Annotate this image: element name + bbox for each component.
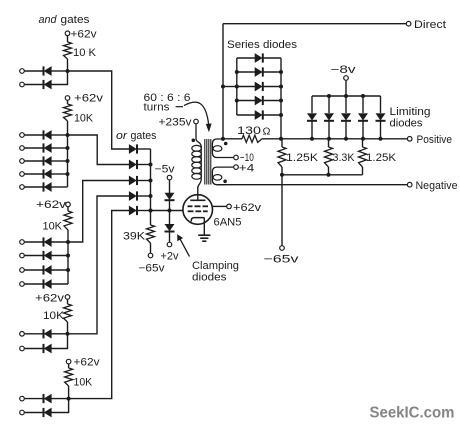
input terminal G4b bbox=[20, 346, 25, 351]
wire G3 bus bbox=[67, 242, 69, 284]
wire G1 D1 out bbox=[52, 70, 68, 72]
svg-text:−8v: −8v bbox=[331, 64, 357, 76]
wire positive bus bbox=[281, 138, 407, 140]
wire series right rail bbox=[280, 58, 282, 139]
wire limiting D5 bottom bbox=[380, 121, 382, 139]
terminal Direct bbox=[406, 21, 411, 26]
input terminal G4a bbox=[20, 332, 25, 337]
resistor R8 1.25K bbox=[278, 139, 319, 175]
wire G5 to or-row5 bbox=[69, 211, 130, 399]
wire negative line bbox=[217, 184, 407, 186]
wire Direct horizontal bbox=[223, 23, 406, 25]
wire series rung 3 out bbox=[263, 86, 281, 88]
wire OR D1 out bbox=[137, 148, 151, 150]
resistor R3 10K G3 bbox=[43, 207, 73, 242]
node limiting bottom junction bbox=[379, 137, 383, 141]
wire G1b bbox=[25, 84, 43, 86]
input terminal G1a bbox=[20, 69, 25, 74]
svg-text:+62v: +62v bbox=[233, 202, 262, 214]
wire series rung 1 out bbox=[263, 57, 281, 59]
wire G5 D1 out bbox=[52, 398, 69, 400]
svg-text:10K: 10K bbox=[43, 221, 63, 233]
node G3 junction bbox=[66, 268, 70, 272]
diode OR D4 bbox=[129, 191, 137, 200]
wire G2 to or-row2 bbox=[68, 135, 130, 165]
input terminal G2b bbox=[20, 146, 25, 151]
node G2 junction bbox=[66, 133, 70, 137]
node limiting top junction bbox=[327, 94, 331, 98]
terminal +235v bbox=[194, 119, 199, 124]
wire G5 D2 out bbox=[52, 399, 69, 413]
svg-text:10K: 10K bbox=[74, 377, 93, 389]
wire G3c bbox=[25, 269, 43, 271]
wire limiting D3 bottom bbox=[345, 121, 347, 139]
node R9 bottom bbox=[327, 173, 331, 177]
svg-text:diodes: diodes bbox=[192, 272, 227, 284]
resistor R1 10K G1 bbox=[64, 36, 97, 71]
terminal Positive bbox=[407, 137, 412, 142]
wire G3a bbox=[25, 241, 43, 243]
diode OR D2 bbox=[129, 160, 137, 169]
svg-text:39K: 39K bbox=[123, 231, 146, 243]
diode G5 D1 bbox=[44, 394, 52, 403]
svg-text:SeekIC.com: SeekIC.com bbox=[370, 405, 455, 422]
node series left junction bbox=[235, 70, 239, 74]
svg-text:10K: 10K bbox=[43, 310, 65, 322]
wire grid line bbox=[151, 210, 184, 212]
wire screen to +62v bbox=[212, 205, 226, 207]
wire G1 to or-row1 bbox=[68, 71, 130, 149]
diode limiting D5 bbox=[376, 114, 386, 121]
wire bus left bbox=[223, 138, 242, 140]
svg-text:and: and bbox=[39, 14, 58, 26]
diode G2 D2 bbox=[44, 143, 52, 152]
label Limiting diodes bbox=[390, 106, 431, 130]
svg-text:turns: turns bbox=[144, 102, 171, 114]
wire G1a bbox=[25, 70, 43, 72]
diode G2 D4 bbox=[44, 169, 52, 178]
diode G2 D1 bbox=[44, 130, 52, 139]
wire G4 to or-row4 bbox=[68, 196, 130, 334]
node series right junction bbox=[279, 99, 283, 103]
input terminal G2e bbox=[20, 185, 25, 190]
tube U1 envelope bbox=[183, 195, 213, 225]
terminal +62v G2 bbox=[65, 96, 70, 101]
svg-text:+2v: +2v bbox=[161, 251, 179, 263]
arrow turns bbox=[184, 102, 211, 131]
terminal -65v (39K) bbox=[148, 253, 153, 258]
terminal -5v bbox=[167, 175, 172, 180]
diode G1 D2 bbox=[44, 80, 52, 89]
svg-text:130: 130 bbox=[237, 125, 261, 137]
diode G3 D1 bbox=[44, 237, 52, 246]
node G2 junction bbox=[66, 146, 70, 150]
svg-text:diodes: diodes bbox=[390, 118, 424, 130]
svg-text:gates: gates bbox=[131, 130, 157, 142]
wire Direct vertical bbox=[222, 24, 224, 140]
diode clamp D1 bbox=[165, 193, 175, 200]
diode OR D3 bbox=[129, 176, 137, 185]
wire to -65v bbox=[281, 175, 283, 246]
wire resistor bottom bus bbox=[282, 174, 363, 176]
svg-text:Ω: Ω bbox=[263, 127, 272, 138]
terminal +62v (tube) bbox=[227, 204, 232, 209]
svg-text:+235v: +235v bbox=[159, 117, 193, 129]
wire G2 D5 out bbox=[52, 186, 68, 188]
wire clamp mid1 bbox=[169, 200, 171, 210]
node or bus junction bbox=[149, 194, 153, 198]
wire series rung 3 bbox=[237, 86, 255, 88]
diode OR D5 bbox=[129, 206, 137, 215]
svg-text:−65v: −65v bbox=[139, 263, 166, 275]
wire G3b bbox=[25, 255, 43, 257]
input terminal G2c bbox=[20, 159, 25, 164]
label 60:6:6 turns bbox=[144, 92, 191, 114]
label and gates bbox=[39, 14, 91, 26]
wire series rung 4 out bbox=[263, 100, 281, 102]
terminal +2v bbox=[167, 242, 172, 247]
resistor R9 3.3K bbox=[325, 139, 356, 175]
wire G3 D4 out bbox=[52, 283, 69, 285]
svg-text:10 K: 10 K bbox=[73, 47, 97, 59]
node secondary1 phase dot bbox=[224, 142, 228, 146]
node series right junction bbox=[279, 113, 283, 117]
node series left junction bbox=[235, 99, 239, 103]
wire limiting D5 top bbox=[380, 96, 382, 113]
svg-text:gates: gates bbox=[61, 14, 91, 26]
wire G4 D2 out bbox=[52, 334, 68, 349]
tube control grid bbox=[188, 210, 208, 212]
wire G3 D1 out bbox=[52, 241, 69, 243]
input terminal G5a bbox=[20, 396, 25, 401]
wire limiting D1 bottom bbox=[311, 121, 313, 139]
label Clamping diodes bbox=[192, 260, 239, 284]
input terminal G3d bbox=[20, 282, 25, 287]
wire bus to rail bbox=[262, 138, 281, 140]
diode G1 D1 bbox=[44, 66, 52, 75]
input terminal G5b bbox=[20, 410, 25, 415]
wire series rung 5 bbox=[237, 114, 255, 116]
arrow to clamping diodes bbox=[178, 235, 190, 257]
diode series D1 bbox=[255, 53, 263, 62]
wire G2 D1 out bbox=[52, 134, 68, 136]
node series rail bottom bbox=[279, 137, 283, 141]
node or bus junction bbox=[149, 163, 153, 167]
wire G3 to or-row3 bbox=[68, 181, 130, 243]
diode series D5 bbox=[255, 110, 263, 119]
wire OR D3 out bbox=[137, 180, 151, 182]
wire -8v bbox=[345, 81, 347, 96]
svg-text:Limiting: Limiting bbox=[390, 106, 431, 118]
tube plate bbox=[190, 199, 205, 201]
diode G3 D2 bbox=[44, 251, 52, 260]
svg-text:+62v: +62v bbox=[35, 293, 65, 305]
diode limiting D2 bbox=[324, 114, 334, 121]
ground bbox=[198, 235, 210, 241]
wire G2 D2 out bbox=[52, 147, 68, 149]
wire G4b bbox=[25, 348, 43, 350]
wire limiting D2 top bbox=[328, 96, 330, 113]
resistor R4 10K G4 bbox=[43, 300, 72, 334]
terminal +62v G1 bbox=[65, 31, 70, 36]
wire series rung 2 out bbox=[263, 71, 281, 73]
node bus junction x223 bbox=[221, 137, 225, 141]
tube plate lead bbox=[197, 187, 199, 200]
resistor R5 10K G5 bbox=[65, 364, 93, 398]
diode series D2 bbox=[255, 67, 263, 76]
wire limiting top bus bbox=[312, 95, 381, 97]
diode G5 D2 bbox=[44, 408, 52, 417]
node G3 junction bbox=[66, 240, 70, 244]
svg-text:Clamping: Clamping bbox=[192, 260, 239, 272]
wire clamp top bbox=[169, 180, 171, 193]
node limiting bottom junction bbox=[327, 137, 331, 141]
diode G3 D4 bbox=[44, 279, 52, 288]
wire G2 D4 out bbox=[52, 173, 68, 175]
wire G2c bbox=[25, 160, 43, 162]
diode G3 D3 bbox=[44, 265, 52, 274]
terminal -8v bbox=[344, 76, 349, 81]
diode limiting D1 bbox=[307, 114, 317, 121]
svg-text:10K: 10K bbox=[74, 113, 94, 125]
node G5 junction bbox=[67, 397, 71, 401]
svg-text:+4: +4 bbox=[239, 162, 255, 174]
input terminal G3c bbox=[20, 268, 25, 273]
svg-text:Direct: Direct bbox=[414, 19, 446, 31]
wire clamp bottom bbox=[169, 232, 171, 242]
wire cathode to ground bbox=[203, 218, 205, 235]
node or bus junction bbox=[149, 179, 153, 183]
wire limiting D4 top bbox=[362, 96, 364, 113]
svg-text:Negative: Negative bbox=[416, 180, 458, 192]
svg-text:Series diodes: Series diodes bbox=[227, 39, 298, 51]
diode limiting D4 bbox=[358, 114, 368, 121]
wire G5a bbox=[25, 398, 43, 400]
wire G3 D3 out bbox=[52, 269, 69, 271]
wire clamp mid2 bbox=[169, 211, 171, 225]
svg-text:1.25K: 1.25K bbox=[286, 152, 319, 164]
svg-text:+62v: +62v bbox=[71, 29, 98, 41]
wire series rung 4 bbox=[237, 100, 255, 102]
wire OR D4 out bbox=[137, 195, 151, 197]
node limiting bottom junction bbox=[344, 137, 348, 141]
diode limiting D3 bbox=[341, 114, 351, 121]
wire G3d bbox=[25, 283, 43, 285]
svg-text:or: or bbox=[116, 130, 129, 142]
diode series D4 bbox=[255, 96, 263, 105]
diode series D3 bbox=[255, 82, 263, 91]
wire G2 D3 out bbox=[52, 160, 68, 162]
wire G2d bbox=[25, 173, 43, 175]
node limiting bottom junction bbox=[310, 137, 314, 141]
node limiting top junction bbox=[344, 94, 348, 98]
diode G4 D2 bbox=[44, 344, 52, 353]
terminal +62v G4 bbox=[65, 295, 70, 300]
transformer T1 secondary winding 2 bbox=[212, 167, 233, 185]
wire series rung 2 bbox=[237, 71, 255, 73]
wire G5b bbox=[25, 412, 43, 414]
node R8 bottom bbox=[280, 173, 284, 177]
resistor R6 39K bbox=[123, 225, 155, 253]
svg-text:6AN5: 6AN5 bbox=[214, 217, 242, 229]
svg-text:−5v: −5v bbox=[155, 164, 176, 176]
wire G2b bbox=[25, 147, 43, 149]
svg-text:+62v: +62v bbox=[74, 357, 101, 369]
diode G4 D1 bbox=[44, 329, 52, 338]
node G2 junction bbox=[66, 159, 70, 163]
wire series rung 5 out bbox=[263, 114, 281, 116]
wire series branch bbox=[223, 86, 237, 88]
wire limiting D2 bottom bbox=[328, 121, 330, 139]
input terminal G1b bbox=[20, 82, 25, 87]
wire OR D2 out bbox=[137, 164, 151, 166]
node limiting bottom junction bbox=[361, 137, 365, 141]
svg-text:+62v: +62v bbox=[36, 199, 67, 211]
wire G1 D2 out bbox=[52, 71, 68, 85]
node direct-series branch bbox=[221, 85, 225, 89]
terminal -10 bbox=[234, 155, 239, 160]
resistor R2 10K G2 bbox=[64, 101, 94, 135]
label or gates bbox=[116, 130, 157, 142]
terminal +62v G5 bbox=[66, 359, 71, 364]
terminal +4 bbox=[234, 165, 239, 170]
terminal -65v (right) bbox=[280, 246, 285, 251]
wire G4a bbox=[25, 333, 43, 335]
node or bus junction bbox=[149, 209, 153, 213]
input terminal G2a bbox=[20, 133, 25, 138]
wire series left rail bbox=[236, 58, 238, 115]
terminal +62v G3 bbox=[66, 202, 71, 207]
wire G2a bbox=[25, 134, 43, 136]
wire limiting D1 top bbox=[311, 96, 313, 113]
wire or-gate bus bbox=[150, 149, 152, 225]
node series right junction bbox=[279, 70, 283, 74]
tube cathode bbox=[191, 218, 204, 222]
tube screen grid bbox=[188, 205, 209, 207]
transformer T1 primary winding bbox=[192, 145, 202, 188]
node series right junction bbox=[279, 85, 283, 89]
wire limiting D3 top bbox=[345, 96, 347, 113]
node G4 junction bbox=[66, 332, 70, 336]
wire G3 D2 out bbox=[52, 255, 69, 257]
wire G4 D1 out bbox=[52, 333, 68, 335]
svg-text:−65v: −65v bbox=[264, 254, 300, 266]
resistor R7 130ohm bbox=[237, 125, 271, 142]
transformer T1 secondary winding 1 bbox=[212, 139, 233, 158]
node primary phase dot bbox=[192, 139, 196, 143]
svg-text:1.25K: 1.25K bbox=[366, 152, 397, 164]
input terminal G2d bbox=[20, 172, 25, 177]
diode OR D1 bbox=[129, 144, 137, 153]
node series left junction bbox=[235, 85, 239, 89]
wire +235v to primary bbox=[196, 124, 201, 147]
terminal Negative bbox=[407, 182, 412, 187]
wire limiting D4 bottom bbox=[362, 121, 364, 139]
node G3 junction bbox=[66, 254, 70, 258]
node G1 junction bbox=[66, 69, 70, 73]
svg-text:+62v: +62v bbox=[74, 93, 104, 105]
diode clamp D2 bbox=[165, 224, 175, 231]
wire OR D5 out bbox=[137, 210, 151, 212]
resistor R10 1.25K bbox=[359, 139, 397, 175]
svg-text:3.3K: 3.3K bbox=[333, 152, 356, 164]
wire series rung 1 bbox=[237, 57, 255, 59]
svg-text:Positive: Positive bbox=[417, 134, 453, 146]
diode G2 D3 bbox=[44, 156, 52, 165]
input terminal G3a bbox=[20, 240, 25, 245]
diode G2 D5 bbox=[44, 182, 52, 191]
wire G2 bus bbox=[67, 135, 69, 187]
node secondary2 phase dot bbox=[223, 180, 227, 184]
node G2 junction bbox=[66, 172, 70, 176]
node clamp junction bbox=[168, 209, 172, 213]
input terminal G3b bbox=[20, 253, 25, 258]
transformer T1 core bbox=[205, 139, 211, 185]
node limiting top junction bbox=[361, 94, 365, 98]
wire G2e bbox=[25, 186, 43, 188]
